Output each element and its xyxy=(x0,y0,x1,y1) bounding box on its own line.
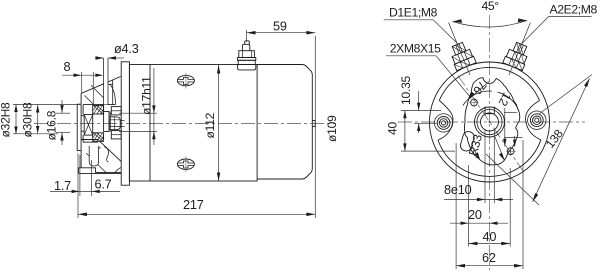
svg-text:ø4.3: ø4.3 xyxy=(114,42,139,56)
12 arrow xyxy=(503,139,506,147)
45 deg arc xyxy=(453,21,528,28)
svg-text:A2E2;M8: A2E2;M8 xyxy=(550,3,598,17)
keyway xyxy=(484,107,486,115)
10.35 arrows xyxy=(417,103,420,111)
svg-text:2XM8X15: 2XM8X15 xyxy=(390,42,441,56)
terminal stud side view xyxy=(238,41,256,70)
leader A2E2 xyxy=(522,17,592,44)
svg-text:40: 40 xyxy=(386,122,400,135)
svg-text:1.7: 1.7 xyxy=(54,179,71,193)
217 arrows xyxy=(78,213,87,217)
shaft lines xyxy=(81,115,84,117)
45deg arc arrows xyxy=(453,19,463,23)
centerline side view xyxy=(34,123,336,125)
svg-text:10.35: 10.35 xyxy=(399,75,413,105)
mounting flange plate xyxy=(121,62,129,185)
hub bottom lines xyxy=(81,139,99,141)
right ear xyxy=(526,101,546,140)
svg-text:D1E1;M8: D1E1;M8 xyxy=(389,5,438,19)
svg-text:8: 8 xyxy=(64,60,71,74)
rear housing small bump xyxy=(312,121,315,127)
stud D1E1 left xyxy=(448,40,477,70)
dimension 217 line xyxy=(77,153,79,218)
seal box xyxy=(84,115,93,136)
dimension o17h11 lines xyxy=(153,68,155,145)
o16.8 arrows xyxy=(60,105,63,113)
through-bolt screw head top xyxy=(177,73,194,89)
shaft hole xyxy=(481,113,499,131)
leader R33 two-branch xyxy=(472,145,480,160)
bottom dims extension lines xyxy=(484,130,486,204)
svg-text:ø16.8: ø16.8 xyxy=(45,110,59,140)
shaft washer xyxy=(104,112,109,132)
dim 20 line xyxy=(450,222,508,224)
o4.3 arrows xyxy=(96,56,104,59)
R33 arc xyxy=(463,91,492,106)
end view texts xyxy=(386,0,598,265)
end shield boundary line xyxy=(149,65,151,182)
left ear xyxy=(434,101,453,141)
rear housing xyxy=(257,65,312,180)
svg-text:12: 12 xyxy=(495,90,514,108)
dim 10.35 xyxy=(418,91,420,111)
bearing seat top xyxy=(111,107,121,115)
62 arrows xyxy=(456,264,465,268)
dim 40 line xyxy=(469,243,511,245)
bottom shelf xyxy=(81,168,121,173)
shaft lip xyxy=(77,104,81,150)
cone hatch top xyxy=(91,85,108,102)
flange fillet bottom xyxy=(115,168,121,173)
svg-text:138: 138 xyxy=(543,127,566,151)
svg-text:ø17h11: ø17h11 xyxy=(140,76,154,115)
cone hatch bottom xyxy=(86,153,107,173)
dimension 1.7 / 6.7 lines xyxy=(50,190,120,192)
8 arrows xyxy=(74,74,82,77)
inner rim circle arcs xyxy=(438,140,541,177)
8e10 arrows xyxy=(477,198,485,201)
dim 12 xyxy=(504,108,506,147)
svg-text:217: 217 xyxy=(183,198,204,212)
svg-text:ø109: ø109 xyxy=(325,115,339,142)
end view studs xyxy=(448,40,532,70)
arrowheads side view xyxy=(14,31,315,216)
mounting face blob xyxy=(464,78,519,165)
hub circle xyxy=(475,107,505,137)
drain slot xyxy=(89,146,98,166)
o32H8 arrows xyxy=(14,105,17,113)
svg-text:ø32H8: ø32H8 xyxy=(0,102,13,138)
R33 arrows xyxy=(475,152,480,160)
brush pocket top xyxy=(112,80,114,105)
o17h11 arrows xyxy=(152,105,155,113)
1.7 arrow xyxy=(72,190,80,193)
hole lines o4.3 xyxy=(104,77,108,104)
dim 40 left xyxy=(404,111,406,152)
bearing bottom xyxy=(93,133,104,142)
dim 76 arc xyxy=(469,81,490,100)
dimension 59 lines xyxy=(246,30,248,42)
76 arrow xyxy=(469,92,475,100)
20 arrows xyxy=(461,222,469,225)
6.7 arrow xyxy=(92,190,100,193)
leader 2XM8X15 xyxy=(386,56,471,98)
centerlines xyxy=(489,15,491,270)
svg-text:45°: 45° xyxy=(482,0,500,13)
svg-text:20: 20 xyxy=(468,208,482,222)
svg-text:ø30H8: ø30H8 xyxy=(21,102,35,138)
bearing seat bottom xyxy=(111,131,121,139)
M8 tapped hole bottom-right xyxy=(507,148,514,155)
stud axis extensions xyxy=(449,23,471,76)
svg-text:ø112: ø112 xyxy=(203,112,217,138)
dim 138 xyxy=(533,78,590,201)
R33 window xyxy=(459,130,475,152)
stud A2E2 right xyxy=(503,40,532,70)
through-bolt screw head bottom xyxy=(177,157,194,173)
hub block xyxy=(80,93,82,167)
40 left arrows xyxy=(403,111,406,119)
59 arrows xyxy=(247,31,256,35)
dimension 8 lines xyxy=(62,74,95,76)
left diameter dims xyxy=(15,105,17,135)
o30H8 arrows xyxy=(36,105,39,113)
138 arrows xyxy=(533,193,539,202)
svg-text:62: 62 xyxy=(482,251,496,265)
40 arrows xyxy=(469,242,478,246)
shaft nut xyxy=(110,117,120,130)
svg-text:6.7: 6.7 xyxy=(95,178,112,192)
dimension o112 line xyxy=(218,65,220,181)
motor main body outline xyxy=(129,65,257,182)
drive end: bottom cone section xyxy=(99,140,122,161)
o112 arrows xyxy=(217,65,220,74)
drive end: top cone section xyxy=(81,77,121,94)
outer circle xyxy=(430,62,550,182)
dimension o4.3 lines xyxy=(95,57,104,59)
bell curve top xyxy=(110,84,115,104)
svg-text:40: 40 xyxy=(483,230,497,244)
end view arrowheads xyxy=(403,18,589,267)
svg-text:8e10: 8e10 xyxy=(444,183,472,197)
dim 62 line xyxy=(456,265,523,267)
M8 tapped hole top-left xyxy=(471,99,478,106)
svg-text:R33: R33 xyxy=(466,132,485,157)
svg-text:59: 59 xyxy=(273,20,287,34)
side view texts xyxy=(0,20,339,213)
dim 8e10 line xyxy=(444,199,513,201)
shaft stub xyxy=(120,119,124,121)
bearing top xyxy=(93,106,104,115)
hub top line xyxy=(83,104,115,106)
bell curve bottom xyxy=(104,147,108,162)
leader D1E1 xyxy=(384,20,459,45)
